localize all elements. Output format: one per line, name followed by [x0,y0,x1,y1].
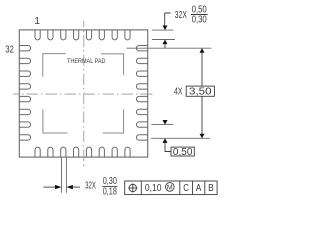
package outline [19,30,147,157]
ext line pin16 center [151,137,210,139]
svg-text:C: C [183,183,189,194]
svg-text:4X: 4X [174,86,183,97]
thermal pad bracket top-right [101,54,124,75]
svg-text:A: A [196,183,202,194]
svg-text:0,10: 0,10 [145,183,162,194]
svg-text:32X: 32X [85,181,96,192]
ext line pin tip (right) [152,39,175,41]
bottom dim arrows 32X 0,30/0,18 [43,186,56,188]
svg-text:THERMAL PAD: THERMAL PAD [67,58,106,65]
vertical centerline [83,21,85,166]
ext line pin15 center [151,124,173,126]
thermal pad bracket bottom-right [103,109,124,133]
svg-text:32: 32 [5,44,14,56]
bottom pins [35,147,130,157]
dim 32X 0,50/0,30 leader and arrows [165,13,171,26]
svg-text:32X: 32X [175,10,187,21]
left pins 32-25 [19,46,30,141]
svg-text:M: M [167,184,173,191]
svg-text:3,50: 3,50 [189,87,212,98]
svg-text:0,30: 0,30 [103,176,118,187]
ext line top edge (right) [152,29,173,31]
right pins 9-16 [136,46,147,141]
svg-text:0,30: 0,30 [192,15,207,26]
feature control frame [125,181,217,195]
thermal pad bracket bottom-left [43,109,68,133]
ext line pin9 center [127,47,212,49]
svg-text:0,50: 0,50 [173,147,193,158]
dim text 0,50 boxed [171,147,194,156]
thermal pad bracket top-left [43,54,66,77]
horizontal centerline [13,93,153,95]
top pins 1-8 [35,30,130,40]
dim 0,50 pitch arrows [163,120,168,125]
position symbol [129,184,136,191]
bottom dim ext lines [61,158,63,193]
svg-text:1: 1 [34,15,40,27]
dim 4X 3,50 line and arrows [201,48,203,138]
svg-text:0,18: 0,18 [103,187,118,198]
svg-text:B: B [208,183,214,194]
